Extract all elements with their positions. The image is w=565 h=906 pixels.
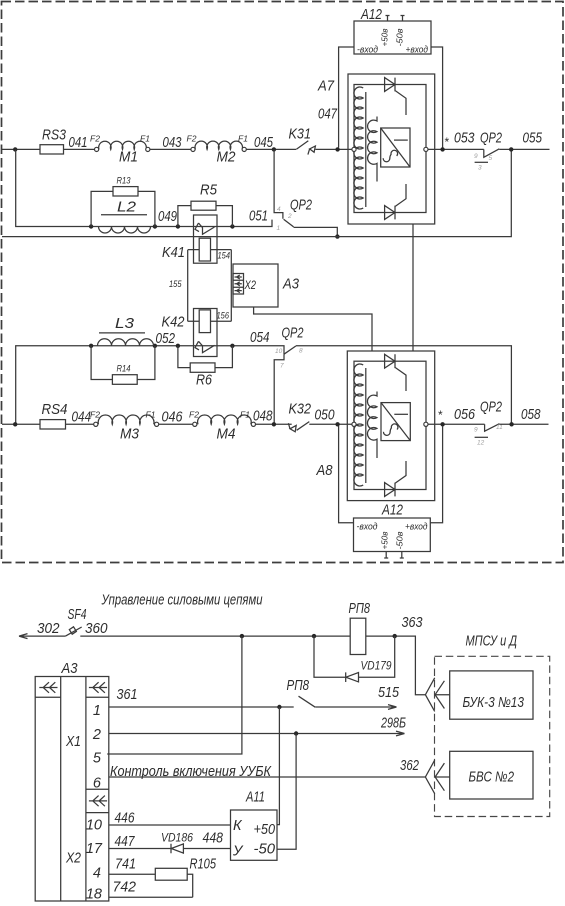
unit A7 outer housing — [348, 74, 435, 224]
wire: 045 riser down to QP2 bracket — [274, 149, 283, 218]
wire: RS4 to M3 — [66, 423, 94, 425]
resistor R14 parallel branch — [91, 346, 155, 380]
svg-text:L2: L2 — [117, 200, 136, 216]
svg-text:M3: M3 — [120, 427, 139, 443]
svg-text:055: 055 — [523, 131, 543, 147]
terminal F1 of M1 — [146, 147, 150, 151]
wire: riser 361 to A11 +50 — [277, 707, 279, 825]
svg-text:X2: X2 — [244, 278, 257, 292]
svg-text:448: 448 — [203, 831, 224, 847]
svg-text:156: 156 — [217, 311, 230, 322]
svg-text:044: 044 — [72, 410, 92, 426]
svg-text:447: 447 — [115, 834, 136, 850]
svg-text:3: 3 — [478, 165, 482, 172]
wire: A12 bottom right lead up to output node — [430, 426, 442, 523]
svg-text:1: 1 — [93, 703, 101, 719]
core bar of A8 sensor — [365, 368, 367, 483]
relay coil K42 — [199, 310, 210, 333]
svg-text:4: 4 — [93, 866, 101, 882]
svg-text:045: 045 — [254, 135, 274, 151]
svg-text:РП8: РП8 — [287, 678, 310, 694]
connector chevrons at БВС — [425, 760, 449, 794]
svg-text:R105: R105 — [190, 857, 217, 873]
arrow to 302 off-page — [19, 634, 66, 639]
svg-text:F1: F1 — [140, 134, 150, 144]
unit БВС №2 — [450, 751, 533, 799]
svg-text:5: 5 — [489, 155, 493, 162]
svg-text:F2: F2 — [90, 134, 100, 144]
svg-text:052: 052 — [156, 331, 176, 347]
resistor R13 parallel branch — [91, 191, 155, 226]
svg-text:050: 050 — [315, 408, 335, 424]
connector block A3 with X2 — [233, 264, 278, 307]
inductor L2 — [99, 227, 151, 234]
wire: X2 pins vertical link — [230, 274, 232, 295]
svg-text:360: 360 — [85, 621, 108, 637]
inductor M4 — [198, 415, 252, 424]
terminal F1 of M3 — [155, 422, 159, 426]
svg-text:F2: F2 — [189, 410, 199, 420]
terminal ticks above A12 — [386, 16, 405, 22]
svg-text:F1: F1 — [240, 410, 250, 420]
svg-text:F2: F2 — [187, 134, 197, 144]
svg-text:4: 4 — [277, 206, 281, 213]
primary winding of A8 sensor — [354, 364, 363, 486]
svg-text:-50: -50 — [254, 842, 276, 858]
wire 154 to X2 — [230, 250, 232, 274]
wire: riser to pin 5 — [107, 636, 242, 754]
svg-text:R6: R6 — [196, 373, 213, 389]
node: junction dot at left riser — [13, 147, 17, 151]
unit A8 inner module — [354, 361, 426, 489]
svg-text:+50в: +50в — [380, 28, 390, 47]
svg-text:БВС №2: БВС №2 — [469, 770, 515, 786]
svg-text:K32: K32 — [289, 402, 312, 418]
wire: 054 to 058 node — [296, 346, 511, 425]
svg-text:A3: A3 — [282, 277, 299, 293]
svg-text:17: 17 — [86, 841, 103, 857]
wire 298Б line with arrow — [109, 731, 405, 736]
svg-text:+50: +50 — [254, 822, 276, 838]
dashed box МПСУ — [435, 656, 550, 816]
svg-text:048: 048 — [253, 409, 273, 425]
contactor K41 housing — [194, 215, 218, 263]
connector chevron X1 right column — [89, 682, 107, 693]
wire: K32 to A8 input — [309, 423, 352, 425]
wire: left riser RS4 line to 052 — [16, 346, 284, 425]
wire: lower motor line left segment — [2, 423, 40, 425]
unit БУК-3 №13 — [450, 671, 533, 719]
node dot on 361 — [277, 705, 281, 709]
primary winding of A7 sensor — [354, 87, 363, 209]
node dots on 052 line — [89, 344, 93, 348]
svg-text:У: У — [232, 844, 244, 860]
dashed enclosure border of power section — [2, 2, 564, 563]
wire: node 048 — [256, 423, 292, 425]
svg-text:362: 362 — [400, 758, 419, 774]
svg-text:051: 051 — [249, 209, 268, 225]
connector chevron X1 left column — [39, 682, 57, 693]
thyristor bottom of A7 — [385, 184, 406, 219]
svg-text:БУК-3 №13: БУК-3 №13 — [463, 695, 525, 711]
svg-text:M4: M4 — [217, 427, 236, 443]
svg-text:*: * — [438, 408, 443, 422]
svg-text:361: 361 — [117, 687, 138, 703]
contactor K42 housing — [194, 309, 218, 357]
terminal F1 of M2 — [242, 147, 246, 151]
svg-text:РП8: РП8 — [349, 601, 371, 617]
svg-text:A8: A8 — [316, 463, 333, 479]
svg-text:742: 742 — [113, 880, 137, 896]
inductor M3 — [98, 415, 154, 424]
svg-text:-вход: -вход — [357, 522, 378, 533]
unit A12 top box — [354, 21, 431, 54]
svg-text:12: 12 — [477, 440, 485, 447]
diode VD179 branch — [314, 636, 395, 682]
wire: 058 segment — [499, 423, 548, 425]
svg-text:056: 056 — [454, 407, 476, 423]
svg-text:R5: R5 — [200, 183, 218, 199]
inductor M2 — [195, 141, 242, 149]
svg-text:053: 053 — [454, 131, 475, 147]
wire: RS3 to M1 — [64, 148, 95, 150]
terminal F1 of M4 — [251, 422, 255, 426]
wire: A8 output to 056 — [428, 423, 485, 425]
wire: 360 line — [80, 635, 350, 637]
svg-text:049: 049 — [158, 209, 177, 225]
svg-text:-50в: -50в — [395, 531, 405, 550]
wire: upper motor line left segment — [2, 148, 40, 150]
terminal F2 of M4 — [193, 422, 197, 426]
wire: A3 bottom lead down to A8 — [254, 307, 372, 351]
terminal F2 of M1 — [95, 147, 99, 151]
terminal circle A7 input — [352, 147, 356, 151]
svg-text:047: 047 — [318, 107, 338, 123]
svg-text:-вход: -вход — [357, 45, 378, 56]
svg-text:9: 9 — [474, 153, 478, 160]
svg-text:054: 054 — [250, 330, 270, 346]
svg-text:5: 5 — [93, 751, 102, 767]
wire: A7 bottom to A8 top link — [412, 224, 414, 351]
node: bypass junction dot — [335, 234, 339, 238]
node: junction dot lower-left — [13, 422, 17, 426]
wire: coil to 363 corner — [366, 636, 426, 695]
node: dot at A8 output — [440, 422, 444, 426]
node: 045 junction dot — [272, 147, 276, 151]
wire: 055 segment — [499, 148, 549, 150]
svg-text:SF4: SF4 — [68, 607, 87, 623]
node: A7 input junction dot — [335, 147, 339, 151]
wire: node 043 — [150, 148, 191, 150]
resistor R5 parallel branch — [178, 206, 233, 227]
svg-text:M1: M1 — [119, 150, 138, 166]
svg-text:043: 043 — [163, 135, 182, 151]
resistor RS4 — [40, 420, 66, 429]
svg-text:F2: F2 — [90, 410, 100, 420]
wire: 049-051 line dots — [89, 224, 93, 228]
svg-text:X2: X2 — [65, 851, 81, 867]
converter box of A7 — [381, 128, 410, 167]
svg-text:363: 363 — [402, 615, 423, 631]
svg-text:МПСУ и Д: МПСУ и Д — [466, 634, 518, 650]
wire 156 from X2 to K42 coil — [230, 294, 232, 321]
svg-text:8: 8 — [299, 348, 303, 355]
svg-text:10: 10 — [86, 818, 102, 834]
svg-text:741: 741 — [115, 857, 136, 873]
terminal F2 of M2 — [191, 147, 195, 151]
node: dot at A7 output — [440, 147, 444, 151]
wire: A12 right lead down to output node — [431, 47, 443, 148]
terminal F2 of M3 — [94, 422, 98, 426]
wire 362 line to БВС — [109, 776, 426, 778]
svg-text:1: 1 — [277, 225, 281, 232]
wire: A7 output to 053 — [428, 148, 484, 150]
wire: A12 bottom left lead up to input node — [339, 426, 354, 523]
svg-text:10: 10 — [275, 348, 283, 355]
wire: K31 to A7 input — [315, 148, 352, 150]
wire: riser 298Б to A11 -50 — [277, 734, 296, 850]
svg-text:VD186: VD186 — [161, 831, 193, 845]
svg-text:К: К — [233, 818, 243, 834]
svg-text:K41: K41 — [162, 245, 185, 261]
thyristor top of A8 — [385, 354, 406, 391]
wire 515 with arrow — [315, 705, 396, 710]
node: 055 junction dot — [509, 147, 513, 151]
terminal circle A8 input — [352, 422, 356, 426]
svg-text:6: 6 — [93, 776, 102, 792]
svg-text:446: 446 — [115, 811, 136, 827]
unit A8 outer housing — [347, 351, 434, 501]
svg-text:9: 9 — [474, 427, 478, 434]
svg-text:154: 154 — [218, 251, 231, 262]
svg-text:-50в: -50в — [395, 28, 405, 47]
node: 050 junction dot — [335, 422, 339, 426]
svg-text:11: 11 — [496, 424, 503, 431]
node: dot 363 — [393, 634, 397, 638]
svg-text:RS4: RS4 — [42, 402, 68, 418]
terminal circle A8 output — [424, 422, 428, 426]
secondary winding of A7 sensor — [368, 117, 377, 182]
wire: node 046 — [159, 423, 193, 425]
terminal ticks below A12 bottom — [384, 552, 404, 559]
svg-text:515: 515 — [378, 685, 400, 701]
resistor R6 parallel branch — [178, 346, 233, 368]
svg-text:7: 7 — [280, 363, 284, 370]
wire: node 045 — [246, 148, 296, 150]
svg-text:R14: R14 — [117, 364, 131, 375]
svg-text:+50в: +50в — [380, 531, 390, 550]
svg-text:R13: R13 — [117, 176, 132, 187]
svg-text:VD179: VD179 — [361, 659, 392, 673]
svg-text:A7: A7 — [317, 79, 335, 95]
wire 155 between coils — [187, 250, 189, 322]
svg-text:QP2: QP2 — [290, 198, 312, 214]
svg-text:302: 302 — [37, 621, 60, 637]
contactor K41 arc contact — [195, 223, 215, 234]
svg-text:298Б: 298Б — [380, 716, 406, 732]
converter box of A8 — [381, 403, 410, 441]
svg-text:*: * — [444, 135, 449, 149]
svg-text:QP2: QP2 — [480, 131, 502, 147]
svg-text:A3: A3 — [61, 661, 78, 677]
connector chevron X2 cell — [86, 789, 109, 812]
svg-text:RS3: RS3 — [42, 128, 66, 144]
inductor L3 — [98, 339, 154, 346]
svg-text:041: 041 — [69, 135, 88, 151]
node dot A8 input — [338, 423, 340, 425]
node: dot VD179 left — [312, 634, 316, 638]
svg-text:+вход: +вход — [405, 522, 428, 533]
svg-text:18: 18 — [86, 887, 102, 903]
svg-text:K31: K31 — [289, 127, 312, 143]
relay coil K41 — [199, 238, 210, 261]
svg-text:F1: F1 — [238, 134, 248, 144]
svg-text:Управление силовыми цепями: Управление силовыми цепями — [101, 593, 263, 609]
svg-text:X1: X1 — [65, 734, 81, 750]
svg-text:058: 058 — [521, 407, 541, 423]
inductor M1 — [99, 141, 147, 149]
svg-text:M2: M2 — [217, 150, 236, 166]
terminal circle A7 output — [424, 147, 428, 151]
connector chevrons at БУК-3 — [425, 678, 449, 712]
thyristor bottom of A8 — [385, 461, 406, 496]
contactor K42 arc contact — [195, 341, 215, 352]
svg-text:A11: A11 — [245, 790, 265, 806]
node: 048 junction dot — [272, 422, 276, 426]
svg-text:2: 2 — [287, 213, 292, 220]
wire: left riser to 049 line — [16, 149, 272, 226]
svg-text:F1: F1 — [146, 410, 156, 420]
wire: A12 left lead down to input node — [339, 47, 354, 148]
wire: bypass bus from border to 055 node — [2, 149, 511, 236]
svg-text:K42: K42 — [162, 315, 185, 331]
svg-text:L3: L3 — [115, 316, 134, 332]
svg-text:046: 046 — [162, 410, 184, 426]
thyristor top of A7 — [385, 78, 406, 115]
svg-text:155: 155 — [169, 279, 182, 290]
secondary winding of A8 sensor — [367, 392, 377, 459]
svg-text:+вход: +вход — [406, 45, 429, 56]
svg-text:A12: A12 — [360, 7, 382, 23]
svg-text:QP2: QP2 — [480, 400, 502, 416]
svg-text:2: 2 — [92, 727, 101, 743]
node: dot to pin5 riser — [240, 634, 244, 638]
node: 058 junction dot — [509, 422, 513, 426]
svg-text:A12: A12 — [381, 503, 403, 519]
resistor RS3 — [40, 145, 64, 154]
unit A7 inner module — [354, 85, 426, 213]
unit A12 bottom box — [354, 518, 431, 552]
core bar of A7 sensor — [365, 92, 367, 207]
svg-text:QP2: QP2 — [282, 326, 304, 342]
